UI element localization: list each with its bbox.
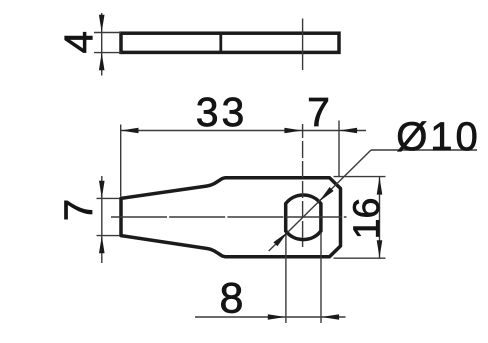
- bottom view part outline: [121, 178, 341, 257]
- dimension 33 and 7: shared dimension line: [121, 130, 366, 132]
- dimension 16: dimension line: [379, 177, 381, 259]
- svg-text:16: 16: [345, 198, 387, 240]
- dimension 7 top: value label: [307, 89, 330, 135]
- dimension 8: dimension line: [195, 316, 346, 318]
- dimension 7 top: extension line right: [338, 121, 340, 177]
- dimension 33: arrowheads: [121, 128, 303, 134]
- dimension 8: extension lines (from hole flats): [286, 233, 321, 323]
- dimension 7 top: arrowhead (outside, pointing left): [339, 128, 357, 134]
- dimension 4: extension lines: [94, 33, 121, 53]
- vertical centerline of hole (also extension for 33/7 dims): [302, 124, 304, 247]
- side view outline (top rectangle, thickness view): [121, 33, 339, 52]
- svg-text:7: 7: [57, 199, 101, 221]
- double-D hole (circle D10 with two flats 8 apart): [286, 195, 321, 240]
- svg-text:8: 8: [220, 275, 244, 323]
- side view divider line (projection of step): [219, 32, 222, 54]
- dimension 16: arrowheads: [377, 177, 383, 258]
- dimension 33: extension line left: [120, 125, 122, 197]
- dimension 4: dimension line: [101, 13, 103, 76]
- diameter leader line (diagonal through hole + horizontal to label): [269, 150, 477, 251]
- dimension 16: extension lines: [334, 177, 386, 259]
- dimension 8: arrowheads (outside, pointing inward): [268, 314, 339, 320]
- svg-text:33: 33: [196, 89, 248, 135]
- svg-text:Ø10: Ø10: [396, 115, 481, 159]
- dimension 8: value label: [220, 275, 244, 323]
- dimension 7 left: arrowheads: [99, 181, 105, 254]
- dimension 4: value label: [57, 31, 101, 53]
- dimension 7 left: extension lines: [97, 198, 120, 235]
- diameter leader arrowheads (outside circle, pointing inward): [273, 187, 333, 246]
- svg-text:4: 4: [57, 31, 101, 53]
- dimension 4: arrowheads: [99, 15, 105, 71]
- dimension 7 left: dimension line: [101, 176, 103, 263]
- dimension 33: value label: [196, 89, 248, 135]
- side view hole centerline (vertical chain line): [302, 19, 304, 71]
- svg-text:7: 7: [307, 89, 330, 135]
- diameter value label D10: [396, 115, 481, 159]
- dimension 7 left: value label: [57, 199, 101, 221]
- horizontal centerline of part: [111, 216, 347, 218]
- dimension 16: value label: [345, 198, 387, 240]
